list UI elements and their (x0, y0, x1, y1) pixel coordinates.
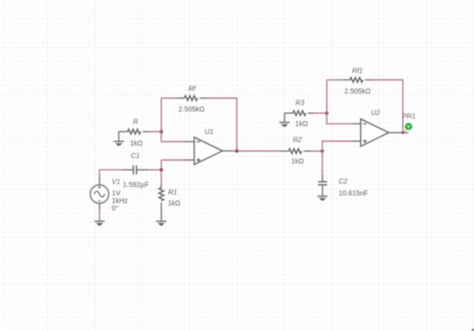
pin R right lead (143, 131, 150, 133)
ground under C2 (317, 196, 327, 200)
resistor R (128, 129, 141, 134)
svg-text:U1: U1 (205, 129, 214, 136)
label Rf1 (352, 68, 363, 75)
wire minus rail of U2 (327, 80, 352, 124)
label C1 (131, 153, 140, 160)
resistor R3 (293, 111, 306, 116)
ground left of R3 (279, 122, 289, 126)
svg-text:1kHz: 1kHz (112, 198, 128, 205)
pin U2 output (389, 132, 398, 134)
svg-text:2.505kΩ: 2.505kΩ (344, 88, 370, 95)
label U1 (205, 129, 214, 136)
label R3 (295, 100, 304, 107)
wire Rf right segment to U1 output (207, 98, 237, 151)
pin Rf left lead (177, 97, 184, 99)
pin R ground-side lead (119, 131, 128, 133)
wire R3 to node F (314, 112, 327, 114)
pin U2 plus input (352, 140, 361, 142)
wire node E up to U2 plus input (322, 141, 352, 151)
wire Rf1 right segment to U2 output (372, 80, 403, 133)
wire Rf left segment (161, 97, 177, 99)
svg-text:1kΩ: 1kΩ (291, 159, 304, 166)
svg-text:1V: 1V (112, 190, 121, 197)
resistor Rf (184, 96, 197, 101)
pin C2 bottom lead (322, 185, 324, 196)
node F junction (325, 111, 328, 114)
wire R to minus rail (150, 131, 162, 133)
svg-text:2.505kΩ: 2.505kΩ (178, 107, 204, 114)
value C2 10.615nF (339, 190, 369, 197)
pin Rf right lead (200, 97, 207, 99)
svg-text:1.592µF: 1.592µF (123, 182, 149, 189)
pin R3 right lead (308, 112, 314, 114)
value V1 1kHz (112, 198, 128, 205)
ground under V1 (94, 221, 104, 225)
capacitor C2 (318, 182, 327, 185)
svg-text:1kΩ: 1kΩ (168, 201, 181, 208)
pin R1 top lead (160, 183, 162, 188)
wire C1 to node B (148, 169, 161, 171)
capacitor C1 (133, 165, 136, 174)
svg-text:1kΩ: 1kΩ (295, 121, 308, 128)
label Rf (189, 86, 197, 93)
node U2 output junction (401, 131, 404, 134)
pin U2 minus input (352, 123, 361, 125)
label C2 (339, 179, 348, 186)
svg-text:C2: C2 (339, 179, 348, 186)
pin R1 bottom lead (160, 202, 162, 221)
value Rf 2.505kOhm (178, 107, 204, 114)
wire minus rail of U1 (160, 98, 162, 142)
node U1 output junction (235, 149, 238, 152)
value R3 1kOhm (295, 121, 308, 128)
wire node B rail down to R1 (160, 160, 162, 183)
label PR1 (402, 114, 416, 121)
pin R2 left lead (281, 150, 289, 152)
wire net V1 top to C1 (100, 170, 123, 177)
node E junction (321, 149, 324, 152)
pin V1 plus terminal (99, 177, 101, 185)
svg-text:1kΩ: 1kΩ (130, 140, 143, 147)
node R junction (160, 130, 163, 133)
wire V1 to ground (99, 210, 101, 221)
ground left of R (114, 141, 124, 145)
pin R3 left lead (285, 112, 293, 114)
value V1 1V (112, 190, 121, 197)
ground stub left of R3 (284, 113, 286, 122)
ground stub left of R (118, 132, 120, 142)
wire Rf1 left segment (327, 79, 342, 81)
svg-text:R1: R1 (168, 189, 177, 196)
node B junction (160, 168, 163, 171)
value R2 1kOhm (291, 159, 304, 166)
pin C1 right lead (137, 169, 148, 171)
wire U1 output to R2 (232, 150, 282, 152)
op-amp U1 (194, 137, 222, 164)
label V1 (112, 179, 121, 186)
resistor R1 (159, 188, 164, 201)
svg-text:10.615nF: 10.615nF (339, 190, 369, 197)
wire rail to U1 minus input (161, 141, 185, 143)
ground under R1 (156, 221, 166, 225)
value R1 1kOhm (168, 201, 181, 208)
pin U1 plus input (186, 159, 195, 161)
svg-text:C1: C1 (131, 153, 140, 160)
value V1 0deg (112, 204, 119, 212)
probe PR1 (403, 123, 412, 132)
svg-text:PR1: PR1 (402, 114, 416, 121)
svg-text:R: R (133, 119, 138, 126)
svg-text:R2: R2 (293, 137, 302, 144)
pin C1 left lead (123, 169, 133, 171)
pin C2 top lead (322, 175, 324, 182)
pin Rf1 left lead (342, 79, 350, 81)
resistor R2 (289, 149, 302, 154)
op-amp U2 (361, 119, 389, 146)
wire node B to U1 plus input (161, 159, 185, 161)
pin U1 minus input (186, 141, 195, 143)
pin V1 minus terminal (99, 203, 101, 210)
value C1 1.592uF (123, 182, 149, 189)
pin Rf1 right lead (365, 79, 372, 81)
wire R2 to node E (311, 150, 323, 152)
label R (133, 119, 138, 126)
svg-text:R3: R3 (295, 100, 304, 107)
resistor Rf1 (350, 78, 363, 83)
svg-text:V1: V1 (112, 179, 121, 186)
source V1 (90, 185, 108, 203)
label R2 (293, 137, 302, 144)
svg-text:Rf: Rf (189, 86, 197, 93)
svg-text:0°: 0° (112, 204, 119, 212)
resize grip bottom right (471, 328, 474, 331)
pin R2 right lead (304, 150, 311, 152)
wire U2 output to probe (398, 132, 409, 134)
svg-text:Rf1: Rf1 (352, 68, 363, 75)
pin U1 output (222, 150, 231, 152)
wire node E down to C2 (321, 151, 323, 174)
label U2 (371, 110, 380, 117)
value Rf1 2.505kOhm (344, 88, 370, 95)
svg-text:U2: U2 (371, 110, 380, 117)
value R 1kOhm (130, 140, 143, 147)
label R1 (168, 189, 177, 196)
